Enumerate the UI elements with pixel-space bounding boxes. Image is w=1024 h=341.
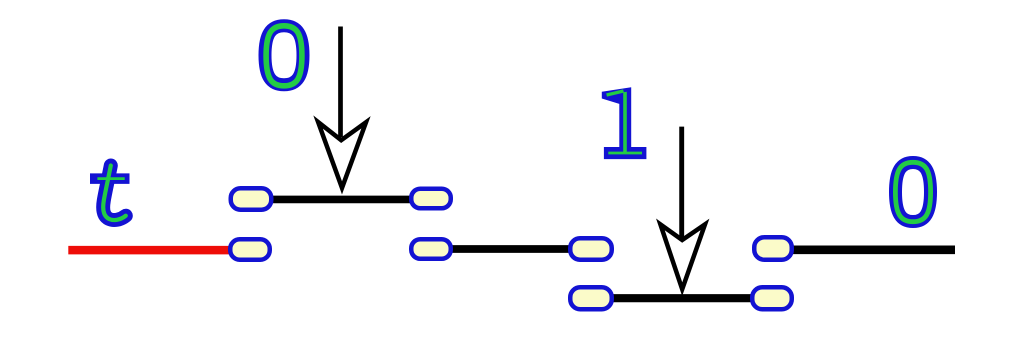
arrow A1 shaft (head pointer to cell 0) (338, 27, 343, 138)
label 0 (above arrow A1): green core (266, 26, 302, 86)
label 0 (right end): green core (895, 162, 930, 221)
label 1: green flag stripe (607, 91, 624, 95)
node pill P4 (row B, start of segment 2) (411, 239, 451, 259)
arrow A2 head (660, 224, 705, 289)
wire segment 2 (middle cell, row B) (431, 245, 591, 253)
wire segment 3 (cell 1, row C) (591, 294, 772, 302)
wire red input segment t (68, 246, 250, 255)
label t crossbar: blue outline stroke (90, 173, 130, 184)
node pill P1 (row A left) (231, 188, 272, 210)
label 1: green stem and base core (608, 92, 642, 155)
node pill P2 (row A right) (411, 189, 451, 209)
label 0 (right end): blue outline (896, 163, 931, 222)
node pill P7 (row C, end of segment 3) (752, 287, 792, 309)
node pill P3 (row B far left) (230, 239, 270, 260)
label t stem: blue outline stroke (103, 166, 126, 221)
label t crossbar: green core stroke (97, 177, 124, 180)
label 0 (above arrow A1): blue outline (265, 26, 303, 85)
label t stem: green core stroke (103, 166, 126, 221)
arrow A2 shaft (head pointer to cell 1) (679, 127, 684, 239)
node pill P6 (row C, start of segment 3) (570, 287, 612, 309)
node pill P5 (row B, end of segment 2) (570, 238, 612, 260)
wire segment 4 (cell 0, row B, rightmost) (773, 246, 955, 255)
arrow A1 head (318, 122, 366, 188)
label 1 (above arrow A2): blue glyph body (602, 87, 647, 159)
wire segment 1 (cell 0, row A) (251, 196, 431, 204)
node pill P8 (row B, start of segment 4) (754, 237, 792, 260)
